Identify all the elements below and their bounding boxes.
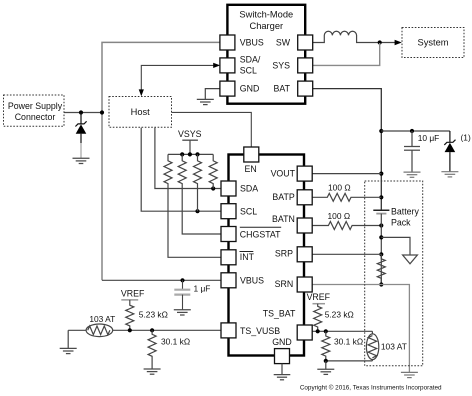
wire: SRN to thermistor network (right) xyxy=(312,285,410,373)
svg-text:SDA: SDA xyxy=(240,184,258,194)
svg-text:100 Ω: 100 Ω xyxy=(328,183,351,193)
zener D1 at battery rail xyxy=(444,131,455,172)
node: junction dot zener tap xyxy=(79,110,83,114)
node: dot SDA / pullup R4 xyxy=(211,186,215,190)
resistor 5.23k (right) xyxy=(314,304,322,332)
wire: to ground right network xyxy=(325,361,327,369)
resistor 30.1k (left) xyxy=(148,330,156,369)
capacitor 10uF xyxy=(404,131,420,172)
svg-text:VREF: VREF xyxy=(121,289,145,299)
resistor 100ohm BATP xyxy=(312,193,382,201)
IC pin CHGSTAT (with overline) xyxy=(221,227,236,242)
capacitor 1uF on IC VBUS xyxy=(174,280,190,309)
ground below 1uF xyxy=(174,310,191,315)
node: dot 10uF branch xyxy=(379,129,383,133)
ground below IC GND xyxy=(274,375,291,380)
charger pin GND xyxy=(220,81,235,96)
svg-text:(1): (1) xyxy=(461,133,471,143)
battery cell symbol xyxy=(373,210,389,213)
IC pin BATP xyxy=(297,190,312,205)
node: junction dot at vertical bus xyxy=(100,110,104,114)
node: dot SW/SYS junction xyxy=(378,40,382,44)
chassis ground triangle xyxy=(403,255,418,264)
wire: IC GND to ground xyxy=(281,364,283,375)
ground below input zener xyxy=(73,158,90,163)
wire: charger BAT down to battery rail xyxy=(313,89,381,210)
resistor 30.1k (right) xyxy=(322,331,330,361)
arrowhead into host top xyxy=(139,89,144,96)
svg-text:Charger: Charger xyxy=(250,21,284,31)
charger pin SYS xyxy=(298,58,313,73)
thermistor 103AT (left) xyxy=(86,324,113,337)
wire: main vertical VBUS bus (charger VBUS to IC VBUS) xyxy=(102,42,221,280)
node: dot chassis branch xyxy=(379,235,383,239)
IC pin EN (top) xyxy=(244,147,259,162)
node: dot at 10uF xyxy=(410,129,414,133)
wire: SRP to rail xyxy=(312,253,382,255)
svg-text:SDA/: SDA/ xyxy=(240,55,261,65)
box: Host xyxy=(109,97,172,128)
svg-text:30.1 kΩ: 30.1 kΩ xyxy=(161,337,190,347)
wire: charger GND to ground xyxy=(205,89,221,100)
svg-text:VOUT: VOUT xyxy=(271,168,296,178)
node: dot 5.23k right xyxy=(316,329,320,333)
resistor sense (between SRP and SRN) xyxy=(377,254,385,284)
node: dot bus R2 xyxy=(180,152,184,156)
svg-text:103 AT: 103 AT xyxy=(89,314,115,324)
resistor pullup R2 (CHGSTAT) xyxy=(178,154,221,234)
svg-text:SW: SW xyxy=(276,38,291,48)
resistor 5.23k (left) xyxy=(126,300,134,330)
wire: right network bottom xyxy=(326,360,373,362)
wire: host SDA to IC SDA xyxy=(155,128,221,189)
wire: power supply to vertical bus xyxy=(64,112,102,114)
svg-text:SRP: SRP xyxy=(275,249,293,259)
svg-text:Host: Host xyxy=(131,107,151,117)
wire: VSYS stub to bus xyxy=(189,140,191,154)
wire: host to EN xyxy=(172,112,252,147)
box: Switch-Mode Charger xyxy=(227,5,305,104)
svg-text:Power Supply: Power Supply xyxy=(8,101,63,111)
svg-text:SCL: SCL xyxy=(240,66,257,76)
IC pin TS_VUSB xyxy=(221,323,236,338)
svg-text:100 Ω: 100 Ω xyxy=(328,211,351,221)
VREF rail bar (right) xyxy=(313,303,326,305)
node: dot bus VSYS xyxy=(188,152,192,156)
svg-text:VREF: VREF xyxy=(307,292,331,302)
node: dot 30.1k left xyxy=(150,328,154,332)
wire: charger SYS up to junction xyxy=(313,43,380,65)
node: dot right bottom xyxy=(324,359,328,363)
wire: IC VOUT to battery rail xyxy=(312,173,382,175)
node: junction dot 1uF tap on IC VBUS wire xyxy=(180,278,184,282)
node: dot 5.23k left xyxy=(128,328,132,332)
ground below 30.1k left xyxy=(144,369,161,374)
svg-text:1 μF: 1 μF xyxy=(194,283,211,293)
ground below 30.1k right xyxy=(317,369,334,374)
ground below zener D1 xyxy=(441,172,458,177)
svg-text:10 μF: 10 μF xyxy=(418,133,440,143)
IC pin SCL xyxy=(221,204,236,219)
charger pin SW xyxy=(298,35,313,50)
wire: pull-up bus xyxy=(168,153,213,155)
node: dot bus R3 xyxy=(195,152,199,156)
resistor pullup R1 (INT) xyxy=(164,154,221,257)
wire+inductor L1: charger SW to system node xyxy=(313,31,396,42)
svg-text:CHGSTAT: CHGSTAT xyxy=(240,229,281,239)
svg-text:TS_VUSB: TS_VUSB xyxy=(240,326,280,336)
ground at charger GND xyxy=(197,99,214,104)
svg-text:BATN: BATN xyxy=(272,214,295,224)
svg-text:Connector: Connector xyxy=(15,112,56,122)
svg-text:Switch-Mode: Switch-Mode xyxy=(239,10,293,20)
arrowhead into charger SDA/SCL pin xyxy=(213,63,220,68)
svg-text:System: System xyxy=(418,38,449,48)
box: Power Supply Connector xyxy=(4,95,65,126)
resistor pullup R4 (SDA) xyxy=(209,154,217,188)
IC pin SRP xyxy=(297,247,312,262)
svg-text:BAT: BAT xyxy=(274,84,291,94)
svg-text:SRN: SRN xyxy=(275,279,294,289)
box: main IC (fuel gauge) xyxy=(229,155,305,356)
svg-text:BATP: BATP xyxy=(272,192,294,202)
svg-text:VBUS: VBUS xyxy=(240,275,264,285)
VSYS rail bar xyxy=(182,139,198,141)
ground at left network xyxy=(60,348,77,353)
ground below 10uF xyxy=(404,172,421,177)
arrowhead into System xyxy=(395,40,402,46)
svg-text:GND: GND xyxy=(240,84,260,94)
wire: branch to 10uF and zener xyxy=(381,130,450,132)
wire: TS_BAT row xyxy=(312,330,373,332)
resistor 100ohm BATN xyxy=(312,222,382,230)
wire: I2C link charger SDA/SCL to host (double arrow) xyxy=(141,65,214,89)
node: dot BATP branch xyxy=(379,195,383,199)
IC pin TS_BAT xyxy=(297,325,312,340)
charger pin VBUS xyxy=(220,35,235,50)
wire: host SCL to IC SCL xyxy=(141,128,221,212)
svg-text:Battery: Battery xyxy=(391,206,419,216)
svg-text:5.23 kΩ: 5.23 kΩ xyxy=(325,310,354,320)
svg-text:INT: INT xyxy=(240,252,255,262)
svg-text:TS_BAT: TS_BAT xyxy=(263,309,296,319)
svg-text:EN: EN xyxy=(244,164,256,174)
svg-text:30.1 kΩ: 30.1 kΩ xyxy=(334,337,363,347)
svg-text:VSYS: VSYS xyxy=(178,129,202,139)
svg-text:Copyright © 2016, Texas Instru: Copyright © 2016, Texas Instruments Inco… xyxy=(300,384,442,392)
IC pin INT (with overline) xyxy=(221,250,236,265)
wire: TS_VUSB row (left network) xyxy=(113,329,221,331)
svg-text:VBUS: VBUS xyxy=(240,38,264,48)
IC pin SRN xyxy=(297,277,312,292)
node: dot SCL / pullup R3 xyxy=(195,209,199,213)
svg-text:5.23 kΩ: 5.23 kΩ xyxy=(139,310,168,320)
IC pin GND (bottom) xyxy=(275,349,290,364)
node: dot SRP xyxy=(379,252,383,256)
VREF rail bar (left) xyxy=(121,299,138,301)
svg-text:GND: GND xyxy=(272,337,292,347)
wire: branch to chassis ground triangle xyxy=(381,237,410,254)
charger pin SDA/SCL xyxy=(220,58,235,73)
svg-text:Pack: Pack xyxy=(391,217,411,227)
wire: left network to ground xyxy=(67,330,69,348)
svg-text:103 AT: 103 AT xyxy=(381,342,407,352)
zener TVS at power input xyxy=(75,113,86,144)
box: Battery Pack (dashed) xyxy=(365,181,423,366)
IC pin VBUS xyxy=(221,273,236,288)
box: System xyxy=(402,28,464,58)
IC pin BATN xyxy=(297,218,312,233)
svg-text:SYS: SYS xyxy=(272,61,290,71)
charger pin BAT xyxy=(298,81,313,96)
svg-text:SCL: SCL xyxy=(240,206,257,216)
IC pin SDA xyxy=(221,181,236,196)
thermistor 103AT (right) xyxy=(366,331,378,361)
resistor pullup R3 (SCL) xyxy=(194,154,202,211)
node: dot SRN xyxy=(379,282,383,286)
ground at right network xyxy=(401,372,418,377)
node: dot 30.1k right xyxy=(324,329,328,333)
IC pin VOUT xyxy=(297,166,312,181)
wire: battery negative down xyxy=(380,214,382,285)
node: dot VOUT branch xyxy=(379,172,383,176)
node: dot BATN branch xyxy=(379,223,383,227)
